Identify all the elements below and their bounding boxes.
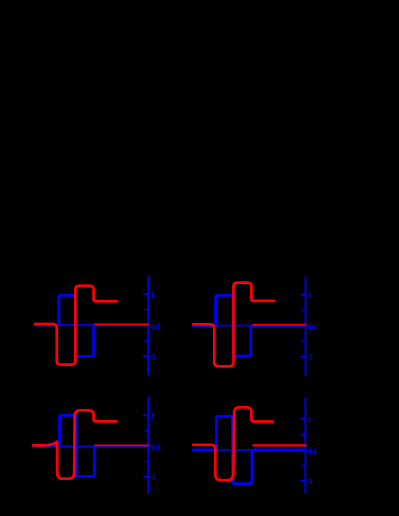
svg-text:-1: -1 <box>149 473 156 482</box>
svg-text:1: 1 <box>308 290 312 299</box>
svg-text:1: 1 <box>151 290 155 299</box>
svg-text:t(s): t(s) <box>151 324 159 331</box>
svg-text:1: 1 <box>151 411 155 420</box>
svg-text:-1: -1 <box>306 352 313 361</box>
svg-text:t(s): t(s) <box>308 448 316 455</box>
svg-text:t(s): t(s) <box>151 445 159 452</box>
ticks <box>144 294 149 356</box>
red curve <box>35 286 117 365</box>
h axis <box>35 324 148 326</box>
blue square wave <box>35 295 148 356</box>
v axis <box>147 277 149 375</box>
svg-text:1: 1 <box>308 415 312 424</box>
svg-text:-1: -1 <box>306 477 313 486</box>
svg-text:-1: -1 <box>149 352 156 361</box>
red tail on axis <box>95 323 148 325</box>
svg-text:t(s): t(s) <box>308 324 316 331</box>
